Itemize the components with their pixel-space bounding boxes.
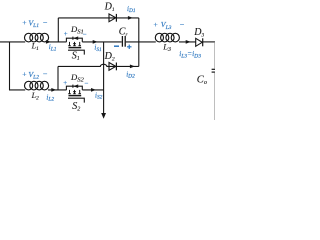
current arrow iL3	[186, 40, 191, 44]
wire: lower input rail to L2	[9, 89, 25, 91]
inductor L3	[155, 33, 179, 42]
wire: D3 to right edge	[203, 41, 215, 43]
svg-text:iL1: iL1	[49, 43, 57, 52]
diode D1	[109, 14, 116, 22]
S1 gate bar	[69, 47, 82, 49]
svg-text:L2: L2	[31, 91, 39, 102]
svg-text:S1: S1	[72, 50, 80, 62]
S2 gate lead bracket	[68, 98, 84, 102]
label +VL1-	[22, 18, 48, 29]
wire: S1 to center junction	[82, 41, 121, 43]
S1 gate lead bracket	[68, 50, 84, 54]
svg-text:+: +	[63, 79, 68, 87]
wire: right edge vertical (clipped)	[214, 42, 216, 69]
svg-text:VL3: VL3	[161, 20, 172, 31]
svg-text:S2: S2	[72, 101, 80, 113]
svg-text:−: −	[82, 31, 87, 39]
svg-text:Cr: Cr	[119, 27, 129, 38]
label +VL2-	[22, 69, 48, 80]
label - (C)	[114, 45, 119, 47]
wire: top rail	[58, 17, 139, 19]
svg-text:VL2: VL2	[28, 70, 39, 81]
left bottom vertical (node to L2 rail)	[57, 66, 59, 90]
wire: input vertical drop	[9, 42, 11, 90]
down arrow at bottom of center vertical	[101, 113, 106, 119]
S2 gate bar	[69, 95, 82, 97]
current arrow iD2	[130, 65, 135, 69]
svg-text:L3: L3	[162, 42, 171, 53]
wire: input rail to L1	[0, 41, 25, 43]
S1 body diode cathode tick	[72, 37, 74, 40]
inductor L1	[25, 33, 49, 42]
svg-text:D3: D3	[193, 27, 204, 39]
svg-text:−: −	[84, 80, 89, 88]
center vertical wire S1/S2 junction	[103, 42, 105, 114]
svg-text:−: −	[42, 18, 47, 27]
current arrow iS2	[91, 88, 96, 92]
svg-text:Co: Co	[197, 74, 207, 86]
inductor L2	[25, 81, 49, 90]
MOSFET S2 channel stubs	[68, 90, 81, 94]
svg-text:+: +	[22, 69, 27, 78]
label +VL3-	[153, 20, 185, 31]
node A: junction tick to top rail	[57, 18, 59, 42]
capacitor C plates	[121, 36, 123, 47]
svg-text:iD2: iD2	[126, 70, 135, 79]
S2 substrate arrow	[73, 91, 76, 94]
MOSFET S1 body diode loop	[66, 38, 82, 42]
current arrow iS1	[93, 40, 98, 44]
svg-text:DS2: DS2	[70, 72, 85, 84]
svg-text:+: +	[153, 20, 158, 29]
S2 body diode cathode tick	[72, 85, 74, 88]
svg-text:iS1: iS1	[94, 44, 102, 53]
svg-text:VL1: VL1	[28, 18, 39, 29]
current arrow iL2	[51, 88, 56, 92]
wire: L2 rail to S2	[48, 89, 67, 91]
svg-text:−: −	[42, 70, 47, 79]
svg-text:D1: D1	[104, 1, 115, 13]
svg-text:iD1: iD1	[127, 5, 136, 14]
right vertical wire	[138, 18, 140, 67]
bottom rail with hop over center vertical	[58, 64, 139, 66]
current arrow iL1	[46, 40, 51, 44]
wire: L3 to D3	[179, 41, 196, 43]
S2 body diode arrow	[73, 84, 78, 88]
MOSFET S1 channel stubs	[68, 42, 81, 46]
wire: S2 to center vertical	[82, 89, 103, 91]
svg-text:iL2: iL2	[46, 93, 54, 102]
svg-text:iS2: iS2	[95, 91, 103, 100]
S1 substrate arrow	[73, 43, 76, 46]
label + (C)	[127, 45, 132, 49]
svg-text:iL3=iD3: iL3=iD3	[179, 49, 201, 59]
svg-text:−: −	[179, 20, 184, 29]
diode D2	[109, 63, 116, 71]
current arrow iD1	[128, 16, 133, 20]
MOSFET S2 body diode loop	[66, 86, 82, 90]
wire: middle rail L1 to S1	[48, 41, 67, 43]
svg-text:+: +	[63, 30, 68, 38]
output capacitor Co plates (clipped at right edge)	[212, 68, 215, 70]
S1 body diode arrow	[73, 36, 78, 40]
svg-text:+: +	[22, 18, 27, 27]
svg-text:D2: D2	[104, 51, 115, 63]
wire: C to L3	[126, 41, 156, 43]
svg-text:L1: L1	[31, 41, 39, 52]
diode D3	[196, 38, 203, 46]
